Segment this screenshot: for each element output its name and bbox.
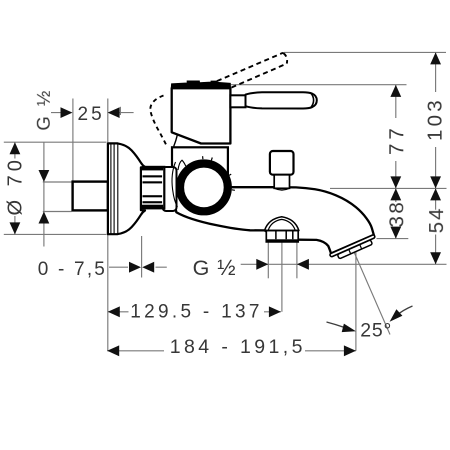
arrow 54 bottom <box>430 252 441 264</box>
label 103 rotated <box>424 97 447 141</box>
svg-text:G ½: G ½ <box>33 88 54 130</box>
dimension 0-7.5 horizontal line <box>109 266 167 268</box>
dimension 184-191.5 horizontal line <box>107 350 356 352</box>
aerator assembly (25 deg) <box>329 234 377 261</box>
escutcheon base ring lines <box>111 143 118 234</box>
arrow D70 bottom <box>10 222 21 234</box>
wire: shower outlet left extension <box>267 242 269 278</box>
arrow 129.5 right <box>269 306 281 317</box>
dimension D70 vertical line <box>14 142 16 234</box>
svg-text:184 - 191,5: 184 - 191,5 <box>170 336 306 358</box>
wire: stub bottom extension <box>43 211 72 213</box>
wire: aerator outlet vertical line <box>355 250 357 351</box>
cartridge top cap <box>171 81 230 88</box>
arrow 184 right <box>344 345 356 356</box>
wire: wall plane extension line <box>107 99 109 352</box>
wire: 25 deg leader left <box>327 322 345 328</box>
arrow G1/2 left up <box>39 212 50 224</box>
arrow 25deg left leader <box>342 324 356 333</box>
sleeve behind ring <box>163 167 177 211</box>
svg-text:Ø 70: Ø 70 <box>5 156 27 215</box>
handle grip end cap line <box>310 93 313 108</box>
handle grip lever <box>246 92 317 108</box>
mounting block <box>172 147 228 187</box>
shower outlet dome <box>265 217 299 231</box>
node: shower outlet centerline <box>281 234 283 312</box>
arrow 77 top <box>390 85 401 97</box>
arrow 25 left <box>61 107 73 118</box>
wire: extension line top of raised handle (103 ref) <box>284 51 446 53</box>
svg-text:38: 38 <box>385 200 408 228</box>
wire: shower outlet right extension <box>296 242 298 278</box>
diverter stem <box>274 175 289 189</box>
spout body <box>174 187 374 253</box>
temperature marker <box>178 160 186 170</box>
svg-text:103: 103 <box>424 97 447 141</box>
svg-text:G: G <box>193 256 210 280</box>
svg-text:½: ½ <box>217 255 235 280</box>
wire: 0-7.5 reference vertical <box>141 236 143 278</box>
arrowheads <box>10 52 442 356</box>
diverter knob <box>270 151 294 175</box>
label D 70 rotated <box>5 156 27 215</box>
arrow 77 bottom <box>390 176 401 188</box>
arrow 38 top <box>390 188 401 200</box>
svg-text:77: 77 <box>385 124 408 155</box>
label 77 rotated <box>385 124 408 155</box>
dashed handle sweep arc <box>150 96 166 146</box>
arrow G1/2 bottom left <box>256 259 268 270</box>
label 54 rotated <box>425 206 448 233</box>
escutcheon bell <box>108 143 145 234</box>
dimension 129.5-137 horizontal line <box>108 311 281 313</box>
svg-text:54: 54 <box>425 206 448 233</box>
wire: centerline extension right (spout axis ref) <box>330 187 447 189</box>
wire: small tick near 25 dim <box>119 107 121 115</box>
label G 1/2 rotated <box>33 88 54 130</box>
handle neck <box>230 95 245 107</box>
svg-text:0 - 7,5: 0 - 7,5 <box>38 259 107 280</box>
svg-text:25: 25 <box>78 104 105 125</box>
label 38 rotated <box>385 200 408 228</box>
dimension 25 horizontal line <box>51 112 134 114</box>
wire: 25 dim left extension line <box>72 99 74 183</box>
ring knurl ticks <box>203 156 235 190</box>
arrow 0-7.5 right <box>142 262 154 273</box>
arrow 129.5 left <box>108 306 120 317</box>
dimension G1/2 left vertical line <box>43 142 45 246</box>
arrow 25 right <box>108 107 120 118</box>
wire: 25 deg slanted flow line <box>353 249 391 335</box>
arrow 103 top <box>430 52 441 64</box>
shower outlet nut <box>266 231 298 242</box>
arrow 0-7.5 left <box>129 262 141 273</box>
svg-text:129.5 - 137: 129.5 - 137 <box>130 302 262 323</box>
dimension 77 / 38 vertical line <box>395 85 397 239</box>
shower outlet dome inner line <box>268 219 295 230</box>
control ring <box>180 164 228 212</box>
arrow G1/2 left down <box>39 170 50 182</box>
dashed raised handle outline <box>209 53 287 88</box>
wire: extension line aerator top corner (38 ref) <box>377 238 409 240</box>
threaded nut <box>140 167 164 208</box>
cartridge body <box>172 88 231 143</box>
pipe stub G1/2 <box>73 182 108 211</box>
arrow 38 bottom <box>390 227 401 239</box>
wire: bottom outlet line G1/2 + 54 ref <box>241 263 447 265</box>
wire: escutcheon bottom extension (D70 ref) <box>4 233 107 235</box>
arrow G1/2 bottom right <box>297 259 309 270</box>
wire: escutcheon top extension (D70 ref) <box>4 141 107 143</box>
arrow 103 bottom <box>430 176 441 188</box>
wire: extension line top of cartridge cap (77 ref) <box>231 84 407 86</box>
arrow 184 left <box>107 345 119 356</box>
svg-text:25°: 25° <box>360 319 392 341</box>
handle pivot arc detail <box>174 135 178 147</box>
dimension 103 vertical line <box>435 52 437 264</box>
diverter stem base fillet <box>275 188 290 190</box>
arrow D70 top <box>10 142 21 154</box>
sleeve arc detail <box>172 162 177 207</box>
arrow 25deg right leader <box>390 309 403 322</box>
arrow 54 top <box>430 188 441 200</box>
wire: 25 deg leader right <box>397 306 413 316</box>
wire: stub top extension <box>43 181 72 183</box>
